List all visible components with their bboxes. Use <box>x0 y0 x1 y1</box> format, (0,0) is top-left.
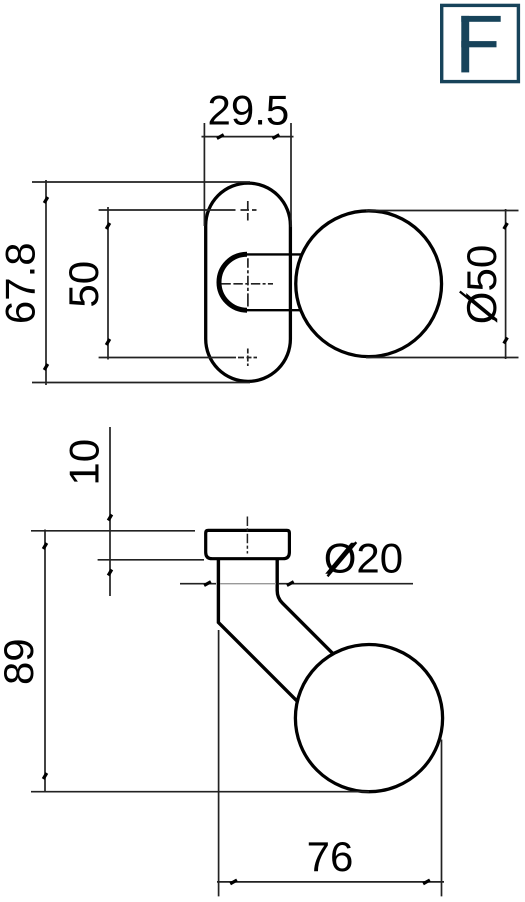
svg-text:67.8: 67.8 <box>0 242 44 324</box>
svg-text:76: 76 <box>307 833 354 880</box>
svg-text:Ø50: Ø50 <box>458 245 505 324</box>
svg-text:50: 50 <box>60 261 107 308</box>
svg-text:Ø20: Ø20 <box>324 535 403 582</box>
svg-text:10: 10 <box>61 439 108 486</box>
svg-text:29.5: 29.5 <box>208 87 290 134</box>
svg-text:89: 89 <box>0 638 42 685</box>
